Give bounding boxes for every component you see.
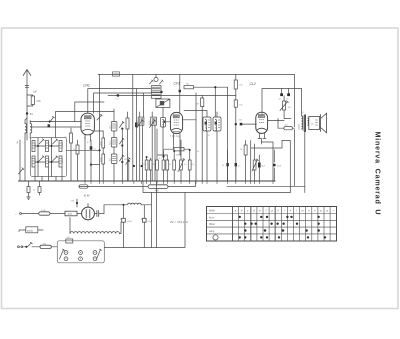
- svg-text:2k: 2k: [240, 149, 242, 151]
- tube CF1: [170, 112, 182, 133]
- selector circles row 1: [64, 251, 97, 255]
- column dividers: [239, 207, 331, 242]
- switch S1d: [53, 156, 58, 161]
- selector capacitor 500: [66, 239, 73, 243]
- IF2 core mark left: [205, 122, 207, 125]
- resistor vertical A: [70, 128, 73, 181]
- output transformer core: [304, 115, 306, 133]
- selector arrows: [60, 249, 65, 259]
- svg-text:λ: λ: [17, 141, 19, 145]
- padder capacitor block C2: [138, 112, 144, 181]
- svg-text:10k: 10k: [288, 107, 291, 109]
- tube CL2: [256, 112, 268, 133]
- IF transformer 2 right winding: [213, 117, 221, 131]
- table dots row Mittel: [244, 223, 320, 225]
- gramophone circle symbol: [213, 235, 218, 240]
- heater wavy line: [70, 232, 119, 234]
- svg-text:2k: 2k: [197, 151, 199, 153]
- switch S1a: [39, 139, 44, 144]
- coil L7: [59, 156, 62, 167]
- resistor row 8: [188, 150, 191, 181]
- svg-text:B1: B1: [30, 112, 34, 116]
- svg-text:Welle: Welle: [209, 209, 216, 212]
- mains row terminals: [20, 213, 22, 215]
- table row lines: [207, 220, 337, 234]
- bus crossing stubs: [85, 181, 273, 184]
- return line 1 with resistor 485: [79, 181, 196, 187]
- wire x250: [250, 141, 252, 182]
- voltage selector box: [57, 241, 104, 263]
- resistor row 2: [149, 158, 152, 181]
- svg-text:1μF: 1μF: [33, 90, 38, 94]
- table dots row gramo: [239, 236, 327, 238]
- svg-text:PTW: PTW: [27, 229, 33, 233]
- resistor 60k (antenna shunt): [27, 95, 34, 106]
- svg-text:CH1: CH1: [83, 84, 90, 88]
- tube CF1 pins: [174, 134, 182, 155]
- electrolytic 45uF: [273, 150, 276, 181]
- switch S1b: [53, 139, 58, 144]
- svg-text:CF1: CF1: [174, 82, 181, 86]
- padder capacitor block C3: [151, 112, 157, 181]
- speaker cone: [321, 113, 327, 133]
- resistor 200 pill: [278, 119, 295, 130]
- IF transformer 2 left winding: [203, 117, 211, 131]
- transformer bottom wire: [304, 132, 306, 186]
- wire group small resistors row: [145, 158, 148, 181]
- svg-text:≥: ≥: [18, 229, 20, 233]
- IF1 variable section: [156, 99, 170, 108]
- svg-text:0,1A: 0,1A: [41, 209, 46, 212]
- IF1 trimmer left: [150, 80, 154, 84]
- svg-text:1M: 1M: [196, 104, 199, 106]
- capacitor dark small: [48, 124, 51, 127]
- long vertical from above: [152, 181, 157, 248]
- svg-text:15000: 15000: [299, 123, 301, 130]
- svg-text:45μF: 45μF: [277, 166, 282, 168]
- junction dot on 70k line: [235, 123, 237, 125]
- tube CH1: [81, 113, 94, 135]
- wire cathode to coil: [31, 126, 81, 128]
- junction CH1 cathode: [90, 164, 92, 166]
- svg-text:50μF: 50μF: [148, 221, 154, 223]
- svg-text:E.M: E.M: [84, 194, 90, 198]
- resistor vertical B: [76, 140, 79, 181]
- mains switch bottom: [18, 242, 40, 248]
- svg-text:7 2 1 mg: 7 2 1 mg: [170, 135, 180, 138]
- electrolytic 47uF: [258, 155, 261, 181]
- IF2 connecting wires: [184, 111, 217, 182]
- long vertical wires center: [132, 75, 134, 182]
- oscillator box 3: [111, 147, 117, 181]
- svg-text:1M: 1M: [64, 137, 67, 139]
- junction dots in box: [37, 145, 53, 163]
- wire up to choke line: [104, 205, 127, 214]
- below-bus capacitor 1: [27, 181, 31, 199]
- capacitor dark 1: [280, 93, 283, 96]
- right risers: [251, 141, 291, 193]
- ground bus: [19, 180, 276, 182]
- capacitor dark 2: [287, 93, 290, 96]
- wire plate line left: [75, 102, 104, 122]
- svg-text:r: r: [333, 208, 334, 212]
- coil L2: [32, 141, 35, 152]
- wire junction below IF1: [158, 154, 168, 156]
- coil value labels: [35, 141, 64, 163]
- selector circles row 2: [64, 257, 97, 261]
- grid capacitor dark on CH1 line: [90, 146, 93, 149]
- trimmer arrow C2: [137, 120, 143, 128]
- resistor 10k vertical: [201, 95, 204, 181]
- svg-text:CL2: CL2: [250, 82, 256, 86]
- band switch box: [31, 138, 67, 177]
- osc switch arrow 1: [120, 121, 125, 129]
- IF2 core mark right: [215, 122, 217, 125]
- coupling cap to CF1: [179, 90, 181, 92]
- resistor row 4 with dot: [162, 151, 165, 182]
- tube CF1 right wire: [183, 119, 196, 121]
- IF1 trimmer right: [160, 80, 164, 84]
- antenna coil L1 secondary: [30, 121, 32, 139]
- IF transformer 1 top circle: [154, 75, 158, 82]
- small pill left: [79, 185, 88, 188]
- table frame: [207, 207, 337, 242]
- speaker voice coil: [308, 118, 309, 125]
- oscillator coil winding L8: [102, 131, 105, 154]
- svg-text:50k: 50k: [177, 171, 180, 173]
- antenna: [23, 70, 31, 141]
- trimmer arrow C3: [150, 120, 156, 128]
- osc switch arrow 3: [120, 155, 125, 163]
- svg-text:60k: 60k: [37, 99, 42, 103]
- wire vertical x227: [227, 87, 229, 181]
- potentiometer with arrow: [179, 140, 185, 181]
- cathode line CL2: [262, 139, 274, 182]
- grid wires above CH1: [88, 89, 152, 114]
- coil L6: [59, 141, 62, 152]
- scattered component value labels: [64, 112, 314, 173]
- junction dot G2: [117, 94, 120, 97]
- bottom bus: [104, 193, 185, 248]
- oscillator box 1: [111, 109, 117, 131]
- output transformer primary coil: [302, 89, 304, 132]
- svg-text:1MF: 1MF: [176, 155, 181, 157]
- padder trimmer arrow: [126, 158, 130, 181]
- wire antenna coil to box: [29, 137, 31, 139]
- wire AVC to box: [67, 149, 100, 151]
- filter choke: [128, 203, 142, 205]
- return line 2: [227, 185, 305, 187]
- resistor row 3: [156, 129, 159, 181]
- svg-text:Mittel: Mittel: [209, 223, 215, 226]
- wires from box to ground bus: [35, 168, 62, 182]
- label column divider: [232, 207, 234, 242]
- svg-text:2M: 2M: [124, 159, 127, 161]
- svg-text:475: 475: [68, 213, 73, 216]
- wire tube1 bottom right: [94, 130, 103, 132]
- svg-text:1500: 1500: [62, 141, 64, 147]
- cap ticks right of rectifier: [97, 211, 99, 217]
- wire grid to coil: [30, 121, 81, 123]
- tube voltage table: [207, 207, 337, 242]
- svg-text:485: 485: [155, 189, 160, 193]
- oscillator coil winding L9: [102, 154, 105, 181]
- osc switch arrow 2: [120, 138, 125, 147]
- output stage rail: [262, 89, 302, 114]
- antenna coil L1 primary: [25, 118, 27, 181]
- osc vertical right: [121, 129, 123, 181]
- B+ drop right: [294, 75, 296, 127]
- table dots row Kurz: [239, 216, 320, 218]
- rectifier tube CY1: [82, 204, 95, 220]
- electrolytic 50uF no1: [121, 204, 126, 248]
- electrolytic with arrow: [280, 96, 291, 119]
- wire CH1 cathode down: [85, 137, 91, 181]
- svg-text:1k: 1k: [169, 164, 171, 166]
- coil L5: [46, 156, 49, 167]
- IF1 winding upper: [151, 86, 161, 93]
- table header row line: [207, 213, 337, 215]
- return line 3: [143, 181, 290, 193]
- svg-text:3000: 3000: [62, 157, 64, 163]
- cap dot A: [226, 150, 228, 181]
- resistor MF horizontal: [164, 148, 190, 151]
- svg-text:ZF = 483 kHz: ZF = 483 kHz: [169, 220, 189, 224]
- resistor 240 tick: [76, 199, 78, 207]
- mains fuse pill: [21, 212, 65, 215]
- dial lamp box: [19, 227, 43, 233]
- tube CL2 right wire: [268, 120, 285, 122]
- header letters: [235, 208, 334, 212]
- pot with arrow right: [252, 144, 258, 181]
- svg-text:50μF: 50μF: [127, 221, 133, 223]
- coil L4: [46, 141, 49, 152]
- IF1 junction dot: [160, 91, 162, 93]
- svg-text:Kurz: Kurz: [209, 216, 215, 219]
- table dots row Lang: [244, 229, 320, 232]
- box internal wires: [35, 138, 59, 177]
- resistor 70k: [234, 100, 237, 181]
- resistor 75k: [234, 75, 237, 100]
- table row labels: [209, 209, 216, 233]
- oscillator box 2: [111, 131, 117, 147]
- tube CL2 pins: [258, 133, 266, 138]
- resistor pill bottom: [40, 245, 57, 248]
- padder capacitor C1: [126, 112, 129, 181]
- cap dot B 50: [235, 163, 237, 181]
- speaker magnet box: [309, 117, 320, 130]
- resistor row 5: [166, 155, 169, 181]
- electrolytic 50uF no2: [141, 205, 146, 248]
- switch S1c: [39, 156, 44, 161]
- coupling cap to CL2 grid: [240, 123, 243, 126]
- node B1 junction dot: [26, 112, 28, 114]
- trimmer capacitor on rail: [113, 72, 120, 76]
- below-bus capacitor 2: [38, 181, 41, 195]
- coil L3: [32, 156, 35, 167]
- screen caps verticals: [282, 89, 289, 94]
- tube CH1 pin wires: [85, 135, 91, 141]
- resistor 485 pill: [148, 185, 168, 189]
- IF1 winding lower: [151, 93, 161, 99]
- resistor 0k vertical: [244, 141, 247, 182]
- earth switch S2: [19, 140, 24, 181]
- osc coil labels: [100, 125, 111, 162]
- svg-text:Minerva Camerad U: Minerva Camerad U: [374, 132, 382, 216]
- switch S3: [50, 116, 55, 122]
- wire x55 down: [56, 112, 115, 138]
- svg-text:5k: 5k: [153, 164, 155, 166]
- top rail: [98, 74, 295, 76]
- osc switch arrow top: [97, 114, 102, 120]
- wire x196 down: [195, 93, 197, 181]
- resistor 475 box: [65, 211, 82, 216]
- junction dots row: [133, 149, 191, 167]
- IF1 secondary winding: [161, 108, 171, 156]
- resistor row 6: [173, 151, 176, 181]
- svg-text:Lang: Lang: [209, 230, 215, 233]
- dark capacitor block: [135, 123, 137, 128]
- resistor 16k: [184, 86, 228, 117]
